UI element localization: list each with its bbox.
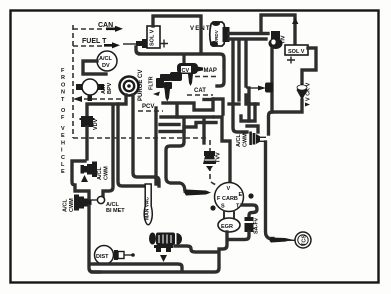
wire maze stub col 246 row bbox=[246, 95, 258, 104]
dashed air-cleaner line with left arrow bbox=[84, 98, 124, 100]
wire lower CWM down to bottom run bbox=[89, 206, 100, 272]
svg-text:CWM: CWM bbox=[104, 166, 110, 180]
wire col 246 with right arrow bbox=[244, 41, 247, 86]
wire maze stub col 223 bbox=[214, 99, 223, 114]
wire row2 drop bbox=[175, 104, 178, 117]
svg-text:CWM: CWM bbox=[69, 198, 75, 212]
wire A/CL DV to left elbow bbox=[83, 61, 106, 74]
svg-text:BPV: BPV bbox=[107, 82, 113, 94]
wire maze stub col 255 bbox=[241, 104, 255, 121]
arrow up on solv feed bbox=[292, 18, 298, 25]
svg-text:SOL V: SOL V bbox=[150, 29, 156, 46]
air-cleaner diverter valve circle A/CL DV bbox=[97, 51, 117, 71]
thermo switch TCS bbox=[295, 232, 311, 248]
A/CL CWM fitting lower bbox=[63, 195, 92, 213]
wire col 220 to carb V line bbox=[214, 117, 230, 182]
svg-text:S: S bbox=[221, 204, 225, 210]
solenoid valve right SOL V bbox=[285, 45, 308, 64]
dashed FUEL line bbox=[73, 45, 103, 47]
wire junction down to TCS elbow bbox=[266, 142, 274, 239]
wire SA-FV down and left bbox=[228, 232, 249, 240]
wire vent bundle lower line bbox=[229, 37, 266, 40]
wire check valve to TIV drop bbox=[269, 100, 303, 134]
purge right leg long drop bbox=[133, 95, 159, 186]
plus mark at SOL V left bbox=[160, 40, 168, 48]
svg-text:V: V bbox=[227, 186, 231, 192]
wire maze stub col 249 bbox=[247, 88, 250, 121]
svg-text:A/CL: A/CL bbox=[236, 134, 242, 147]
MAN VAC flask tube with label bbox=[144, 184, 152, 225]
svg-text:CWM: CWM bbox=[243, 133, 249, 147]
dashed engine-compartment boundary vertical bbox=[72, 25, 74, 138]
thermactor idle valve TIV bbox=[269, 31, 287, 49]
A/CL CWM fitting upper bbox=[81, 162, 110, 181]
bimetal sensor circle bbox=[88, 196, 105, 203]
wire row2 bbox=[161, 115, 213, 118]
drop from x114 vertical to bimetal cluster bbox=[103, 106, 113, 197]
svg-text:MAP: MAP bbox=[204, 68, 217, 74]
svg-text:A/CL: A/CL bbox=[63, 199, 69, 212]
arrow up near CWM fitting bbox=[81, 175, 88, 182]
wire EGR down to VRV line bbox=[219, 232, 227, 249]
nipple to TCS bbox=[270, 237, 294, 242]
bottom run upper bbox=[91, 264, 182, 269]
wire maze stub row 99 bbox=[204, 98, 213, 101]
wire maze stub row 126 bbox=[247, 126, 258, 132]
wire bundle up to top run bbox=[261, 15, 295, 45]
spark advance fuel valve SA-FV bbox=[245, 217, 260, 234]
small arrow right of check valve bbox=[305, 103, 310, 107]
svg-text:PURGE CV: PURGE CV bbox=[138, 70, 144, 101]
EGR valve bbox=[218, 211, 240, 232]
svg-text:E: E bbox=[239, 192, 243, 198]
dashed CAN line bbox=[73, 28, 105, 30]
dashed TVV drop bbox=[209, 140, 211, 151]
purge control valve circle bbox=[120, 77, 139, 96]
svg-text:DIST: DIST bbox=[96, 254, 109, 260]
small text block beside sensor bbox=[101, 82, 113, 94]
svg-text:DV: DV bbox=[102, 63, 110, 69]
svg-text:CAT: CAT bbox=[194, 88, 206, 94]
wire VDV down bbox=[85, 127, 88, 159]
svg-text:PCV: PCV bbox=[142, 104, 154, 110]
dashed under PCV bbox=[138, 110, 163, 112]
wire man vac feed drop bbox=[154, 108, 157, 184]
fitting on TIV drop tube bbox=[265, 83, 273, 93]
svg-text:TCS: TCS bbox=[302, 235, 308, 246]
thermal vacuum valve TVV bbox=[203, 151, 222, 171]
dashed under CAT bbox=[187, 94, 213, 96]
wire SOL V right to check valve bbox=[302, 48, 316, 83]
svg-text:A/CL: A/CL bbox=[97, 167, 103, 180]
carb F nipple bbox=[185, 190, 212, 196]
svg-text:CARB: CARB bbox=[222, 196, 238, 202]
svg-text:CV: CV bbox=[182, 68, 190, 74]
arrow left on dashed line bbox=[73, 96, 82, 102]
wire VRV outlet bbox=[175, 246, 217, 252]
svg-text:TVV: TVV bbox=[216, 152, 222, 163]
dashed TVV to carb bbox=[210, 166, 218, 185]
wire SOL V top over to vent drop bbox=[153, 16, 201, 52]
label A/CL BI-MET bbox=[106, 202, 125, 214]
wire row3 step bbox=[160, 123, 216, 132]
svg-text:FUEL T: FUEL T bbox=[82, 38, 107, 45]
vacuum delay valve VDV bbox=[80, 116, 100, 130]
distributor circle DIST bbox=[95, 246, 135, 265]
svg-text:SOL V: SOL V bbox=[288, 49, 305, 55]
wire carb F feed S-path bbox=[166, 119, 185, 191]
dashed under MAP bbox=[195, 76, 217, 78]
wire maze stub row 104 bbox=[229, 102, 239, 105]
svg-text:VDV: VDV bbox=[93, 118, 99, 130]
svg-text:V CK V: V CK V bbox=[306, 82, 312, 101]
wire short maze row left bbox=[160, 123, 179, 126]
wire carb E to SA-FV bbox=[242, 205, 257, 218]
arrow FUEL bbox=[104, 42, 120, 48]
sensor with stubs (vacuum motor) bbox=[76, 79, 104, 101]
bottom run lower bbox=[92, 252, 219, 272]
vent valve VRDV bbox=[210, 21, 230, 47]
A/CL CWM fitting center bbox=[236, 132, 266, 148]
wire long horizontal manifold top bbox=[136, 47, 224, 86]
svg-text:FLTR: FLTR bbox=[149, 76, 155, 90]
svg-text:BI MET: BI MET bbox=[106, 208, 125, 214]
arrow CAN bbox=[106, 26, 123, 32]
vacuum regulator valve VRV bbox=[149, 233, 182, 263]
solenoid valve left SOL V bbox=[147, 26, 160, 48]
wire col 233 from top bbox=[233, 41, 247, 132]
wire col 239 bbox=[237, 41, 240, 100]
long drop from maze to man-vac junction bbox=[118, 104, 145, 186]
fuel fitting into SOL V bbox=[123, 39, 147, 48]
wire vent bundle to TIV bbox=[229, 32, 268, 35]
svg-text:TIV: TIV bbox=[281, 35, 287, 44]
wire col 204 drop bbox=[202, 119, 205, 143]
svg-text:A/CL: A/CL bbox=[99, 56, 112, 62]
wire elbow left and down to lower cluster bbox=[72, 161, 89, 198]
ACV assembly bbox=[149, 57, 204, 102]
purge left leg to VDV feed bbox=[87, 95, 126, 116]
wire TIV down to junction bbox=[270, 49, 273, 112]
dashed manifold line bbox=[73, 137, 206, 139]
carburetor CARB bbox=[210, 183, 253, 212]
svg-text:VRDV: VRDV bbox=[214, 29, 219, 43]
vacuum check valve V CK V bbox=[297, 82, 312, 101]
wire pcv row bbox=[163, 99, 213, 110]
svg-text:MAN VAC: MAN VAC bbox=[145, 197, 151, 220]
svg-text:EGR: EGR bbox=[221, 224, 233, 230]
svg-text:SA-Fv: SA-Fv bbox=[254, 217, 260, 234]
